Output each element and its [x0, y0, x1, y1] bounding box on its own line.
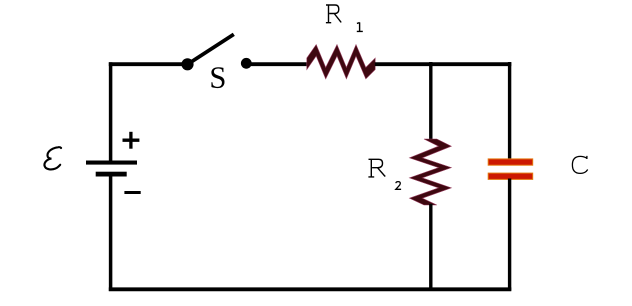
switch S left contact node — [181, 58, 193, 70]
wire R1 to top-right corner — [375, 62, 512, 66]
label R1 — [326, 5, 363, 31]
label R2 — [368, 159, 401, 189]
capacitor C bottom plate — [488, 173, 533, 179]
wire left vertical lower (battery down to bottom wire) — [109, 176, 113, 291]
label minus (battery negative) — [124, 191, 140, 194]
wire top-left horizontal (battery top to switch) — [109, 62, 188, 66]
wire R2 branch top (top wire down to R2) — [429, 62, 432, 141]
wire switch to resistor R1 — [246, 62, 307, 66]
label EMF script-E — [44, 147, 61, 169]
resistor R2 — [410, 139, 452, 205]
battery positive plate (long) — [86, 161, 137, 165]
label S — [211, 67, 224, 88]
capacitor C top plate — [488, 159, 533, 165]
wire bottom horizontal — [109, 287, 512, 291]
label C — [572, 156, 587, 174]
resistor R1 — [307, 45, 375, 79]
wire right vertical upper (corner down to capacitor) — [508, 62, 511, 160]
wire left vertical upper (top wire down to battery) — [109, 62, 113, 161]
switch S blade (open arm) — [188, 34, 234, 64]
battery negative plate (short) — [96, 172, 127, 177]
switch S right contact node — [241, 58, 252, 69]
wire R2 branch bottom (R2 down to bottom wire) — [429, 204, 432, 291]
wire right vertical lower (capacitor down to bottom wire) — [508, 179, 511, 291]
label + (battery positive) — [123, 132, 140, 149]
